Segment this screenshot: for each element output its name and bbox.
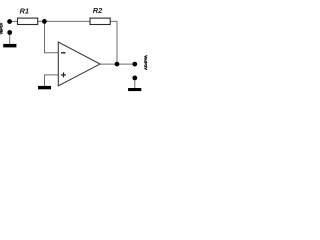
ground at Vin [3, 44, 16, 48]
wire R1 to R2 through node A [38, 20, 90, 22]
node output junction [115, 62, 120, 67]
node Vin upper terminal [7, 19, 12, 24]
svg-text:Vin=1V: Vin=1V [0, 22, 3, 34]
wire node A down to inverting input [45, 21, 59, 52]
node Vout upper terminal [132, 62, 137, 67]
wire Vin lower terminal to ground [9, 33, 11, 45]
node Vout lower terminal [132, 76, 137, 81]
resistor R2 [90, 18, 110, 24]
wire input to R1 [9, 20, 17, 22]
op-amp U1 body [58, 42, 100, 86]
op-amp non-inverting input plus sign [61, 72, 66, 77]
op-amp inverting input minus sign [61, 52, 66, 54]
wire Vout lower terminal to ground [134, 78, 136, 89]
wire op-amp output to Vout terminal [100, 63, 135, 65]
ground at Vout [128, 88, 141, 91]
node A junction [42, 19, 47, 24]
node Vin lower terminal [7, 30, 12, 35]
svg-text:Vout=2V: Vout=2V [143, 55, 147, 70]
wire R2 right down to output node [110, 21, 117, 64]
svg-text:R1: R1 [20, 7, 29, 16]
wire non-inverting input to ground [45, 75, 59, 86]
svg-text:R2: R2 [93, 6, 103, 15]
resistor R1 [18, 18, 38, 24]
ground at non-inverting input [38, 86, 51, 89]
